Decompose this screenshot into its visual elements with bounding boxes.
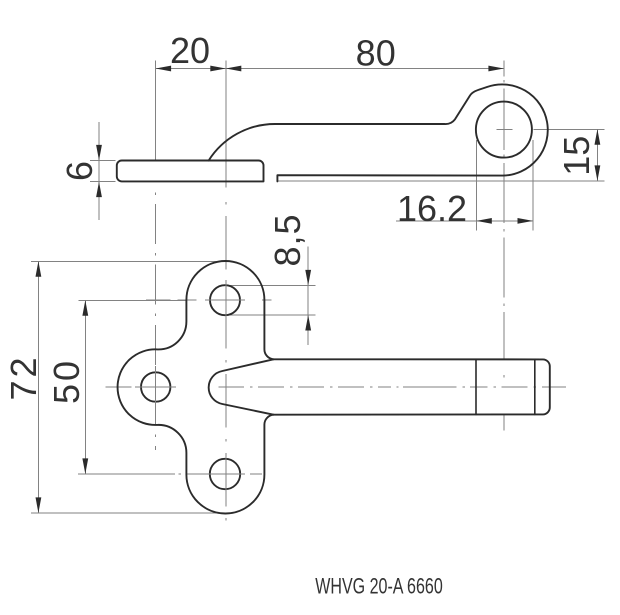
svg-text:6: 6 [59, 161, 100, 181]
svg-text:WHVG 20-A 6660: WHVG 20-A 6660 [315, 574, 443, 599]
svg-text:80: 80 [356, 33, 396, 74]
svg-text:20: 20 [170, 30, 210, 71]
svg-text:16.2: 16.2 [397, 188, 467, 229]
svg-text:15: 15 [556, 136, 597, 176]
svg-text:72: 72 [3, 354, 44, 400]
svg-text:50: 50 [46, 358, 87, 404]
svg-text:8,5: 8,5 [267, 213, 308, 266]
